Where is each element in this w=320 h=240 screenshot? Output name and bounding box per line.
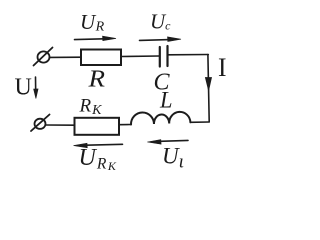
svg-text:Uc: Uc [150, 10, 171, 34]
svg-text:L: L [159, 88, 172, 113]
svg-text:U: U [15, 75, 32, 101]
svg-text:R: R [87, 67, 105, 93]
svg-text:I: I [218, 53, 227, 82]
svg-text:UR: UR [80, 10, 105, 35]
svg-text:URK: URK [79, 145, 117, 173]
svg-text:RK: RK [79, 96, 103, 119]
svg-text:Uι: Uι [162, 144, 184, 173]
